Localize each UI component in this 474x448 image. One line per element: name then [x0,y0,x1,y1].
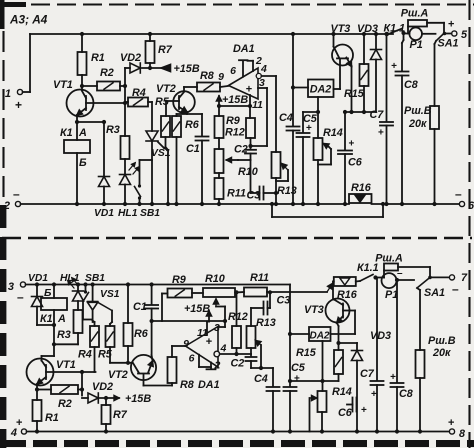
svg-text:R9: R9 [172,274,186,286]
svg-text:R1: R1 [91,52,105,64]
svg-text:R13: R13 [256,317,276,329]
svg-text:VT3: VT3 [304,304,324,316]
svg-text:R3: R3 [57,329,71,341]
svg-text:–: – [452,282,459,296]
svg-text:R2: R2 [100,67,114,79]
svg-text:C7: C7 [360,368,375,380]
svg-text:VS1: VS1 [100,289,120,300]
svg-text:SB1: SB1 [85,273,105,284]
svg-text:R12: R12 [225,127,245,139]
svg-text:+: + [16,417,22,429]
svg-text:Рш.В: Рш.В [404,105,432,117]
svg-text:6: 6 [468,200,474,212]
svg-text:C8: C8 [404,79,418,91]
svg-text:VD3: VD3 [370,330,391,342]
svg-text:+: + [390,372,396,383]
svg-text:DA1: DA1 [198,379,220,391]
svg-text:C2: C2 [231,358,245,370]
svg-text:R9: R9 [226,115,240,127]
svg-text:VT1: VT1 [56,359,76,371]
svg-text:R6: R6 [185,119,200,131]
svg-text:9: 9 [218,71,224,83]
svg-text:R15: R15 [344,88,365,100]
svg-text:+: + [448,19,454,31]
svg-text:К1: К1 [60,127,73,139]
svg-text:R5: R5 [155,96,170,108]
svg-text:C6: C6 [338,407,353,419]
svg-text:VD1: VD1 [94,208,114,219]
svg-text:20к: 20к [432,347,451,359]
svg-text:6: 6 [230,65,236,77]
svg-text:R14: R14 [332,386,352,398]
svg-text:VT2: VT2 [108,369,128,381]
svg-text:R4: R4 [78,349,92,361]
svg-text:DA2: DA2 [310,84,332,96]
svg-text:SA1: SA1 [424,287,445,299]
svg-text:SB1: SB1 [140,208,160,219]
svg-text:–: – [455,187,462,201]
svg-text:9: 9 [183,338,189,350]
svg-text:C3: C3 [247,190,261,202]
svg-text:Рш.В: Рш.В [428,335,456,347]
svg-text:R6: R6 [134,328,149,340]
svg-text:C1: C1 [133,301,147,313]
svg-text:+15В: +15В [174,63,200,75]
svg-text:+: + [448,417,454,429]
svg-text:–: – [13,187,20,201]
svg-text:+15В: +15В [125,393,151,405]
svg-text:R7: R7 [158,44,173,56]
svg-text:R14: R14 [323,127,343,139]
svg-text:R8: R8 [180,379,194,391]
svg-text:А: А [57,313,66,325]
svg-text:А: А [78,127,87,139]
svg-text:+: + [378,128,384,139]
svg-text:4: 4 [220,343,227,355]
svg-text:C4: C4 [254,373,268,385]
svg-text:5: 5 [461,29,468,41]
svg-text:C5: C5 [291,362,306,374]
svg-text:C8: C8 [399,388,413,400]
svg-text:R10: R10 [205,273,225,285]
svg-text:8: 8 [459,428,465,440]
svg-text:R11: R11 [250,272,269,284]
svg-text:20к: 20к [408,118,427,130]
svg-text:+: + [294,374,300,385]
svg-text:VT2: VT2 [156,83,176,95]
svg-text:3: 3 [8,281,14,293]
svg-text:P1: P1 [410,39,423,51]
svg-text:R3: R3 [106,124,120,136]
svg-text:VD2: VD2 [120,52,141,64]
svg-text:VT1: VT1 [53,79,73,91]
svg-text:HL1: HL1 [118,208,138,219]
svg-text:6: 6 [189,353,195,365]
svg-text:7: 7 [461,272,468,284]
svg-text:R16: R16 [351,182,372,194]
svg-text:R11: R11 [227,188,246,200]
svg-text:R2: R2 [58,398,72,410]
svg-text:–: – [17,290,24,304]
svg-text:R10: R10 [238,166,258,178]
svg-text:DA1: DA1 [233,43,255,55]
svg-text:R7: R7 [113,409,128,421]
svg-text:+15В: +15В [184,303,210,315]
svg-text:11: 11 [252,99,263,111]
svg-text:C3: C3 [277,295,291,307]
svg-text:–: – [397,268,403,279]
svg-text:R1: R1 [45,412,59,424]
svg-text:C4: C4 [279,112,293,124]
svg-text:А3; А4: А3; А4 [9,13,48,27]
svg-text:VD1: VD1 [28,273,48,284]
svg-text:DA2: DA2 [309,331,329,342]
svg-text:R8: R8 [200,70,214,82]
svg-text:1: 1 [5,88,11,100]
svg-text:Рш.А: Рш.А [401,8,429,20]
svg-text:2: 2 [3,200,10,212]
svg-text:Б: Б [79,157,87,169]
svg-text:SA1: SA1 [438,38,459,50]
svg-text:4: 4 [260,63,267,75]
svg-text:C1: C1 [186,143,200,155]
svg-text:R15: R15 [296,347,317,359]
svg-text:C6: C6 [348,157,363,169]
svg-text:3: 3 [214,322,220,334]
svg-text:+15В: +15В [222,94,248,106]
svg-text:+: + [391,61,397,72]
svg-text:+: + [15,98,22,112]
svg-text:+: + [361,405,367,416]
svg-text:К1: К1 [40,313,53,325]
svg-text:VD2: VD2 [92,381,113,393]
svg-text:C7: C7 [370,109,385,121]
svg-text:+: + [349,139,355,150]
svg-text:R12: R12 [228,311,248,323]
